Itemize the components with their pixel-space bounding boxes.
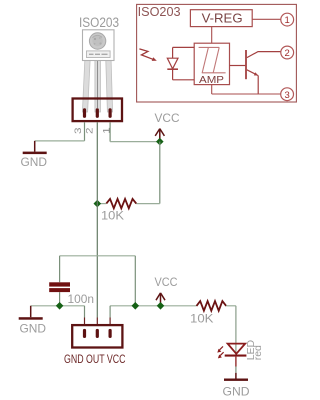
emitter vertical to rail xyxy=(257,76,259,94)
wire: GND rail bottom left xyxy=(31,305,85,307)
svg-text:2: 2 xyxy=(85,128,95,135)
svg-text:VCC: VCC xyxy=(155,275,178,289)
photodiode D1 xyxy=(167,47,194,79)
svg-text:GND: GND xyxy=(223,385,250,399)
SV1 pin 2 contact xyxy=(96,108,99,118)
wire: pin1 run right to VCC node xyxy=(110,141,160,143)
svg-text:ISO203: ISO203 xyxy=(138,5,181,19)
connector SV2 (bottom header GND OUT VCC) xyxy=(72,325,122,347)
capacitor C1 xyxy=(49,282,70,292)
ground GND (bottom left) xyxy=(19,306,47,336)
pin circle 3 xyxy=(281,88,294,101)
wire: SV1 pin3 down xyxy=(84,122,86,141)
wire: down to LED anode xyxy=(235,306,237,355)
svg-text:GND: GND xyxy=(21,155,48,169)
SV2 pin VCC contact xyxy=(109,329,112,338)
package body outline xyxy=(83,30,115,61)
junction: C1 / GND rail xyxy=(56,302,64,310)
block V-REG xyxy=(190,10,252,27)
wire: SV1 pin1 down xyxy=(109,122,111,141)
svg-text:100n: 100n xyxy=(68,292,95,306)
svg-text:10K: 10K xyxy=(101,209,124,223)
wire: OUT net vertical (SV1 pin2 down to SV2) xyxy=(96,122,98,317)
right leg xyxy=(106,61,113,113)
AMP glyph (stylised filter Z) xyxy=(199,47,226,72)
pin circle 2 xyxy=(281,46,294,59)
middle leg xyxy=(95,61,101,113)
collector xyxy=(247,52,281,58)
ground GND (top left) xyxy=(21,141,48,169)
wire: VCC node down to R1 xyxy=(159,142,161,204)
wire: LED cathode stub xyxy=(235,357,237,367)
SV1 pin 1 contact xyxy=(109,108,112,118)
ground GND (under LED) xyxy=(223,373,250,399)
svg-text:V-REG: V-REG xyxy=(202,11,243,26)
svg-text:3: 3 xyxy=(284,90,289,101)
SV2 pin OUT contact xyxy=(96,329,99,338)
supply VCC (bottom) xyxy=(155,275,178,305)
resistor R2 10K xyxy=(197,301,227,311)
wire: C1 bottom lead xyxy=(59,292,61,306)
wire: VCC branch drop right xyxy=(134,256,136,306)
wire: V-REG to pin 1 circle xyxy=(252,18,281,20)
left leg xyxy=(82,61,90,113)
wire: R2 to LED corner xyxy=(226,305,236,307)
supply VCC (top) xyxy=(155,111,180,141)
wire: VCC branch horizontal above capacitor xyxy=(60,255,136,257)
base bar xyxy=(245,50,247,79)
IR receiver package drawing (TO-92 front view) xyxy=(82,30,114,112)
light arrow 1 xyxy=(220,346,223,349)
wire: drop to capacitor C1 xyxy=(59,256,61,282)
junction: VCC drop / rail xyxy=(132,302,140,310)
svg-text:10K: 10K xyxy=(190,312,214,326)
svg-text:red: red xyxy=(252,345,264,360)
svg-text:VCC: VCC xyxy=(155,111,180,125)
wire: VCC rail down to SV2 pin xyxy=(109,306,111,318)
block AMP xyxy=(194,43,229,84)
transistor Q1 (inside module) xyxy=(230,50,281,94)
resistor R1 10K xyxy=(106,199,136,208)
ISO203 internal block diagram box xyxy=(137,4,297,102)
wire: AMP bottom to rail xyxy=(211,85,213,94)
wire: R1 left lead to OUT net xyxy=(97,203,106,205)
IR light arrow xyxy=(139,49,156,61)
junction: OUT / R1 xyxy=(94,200,102,208)
svg-text:GND OUT VCC: GND OUT VCC xyxy=(64,352,126,366)
svg-text:AMP: AMP xyxy=(199,74,224,86)
wire: GND rail down to SV2 pin xyxy=(84,306,86,318)
SV1 pin 3 contact xyxy=(83,108,86,118)
svg-text:2: 2 xyxy=(285,48,290,59)
package lens circle xyxy=(89,33,105,49)
wire: cathode to ground xyxy=(235,367,237,373)
SV2 pin GND contact xyxy=(83,329,86,338)
light arrow 2 xyxy=(220,352,223,355)
package label plate xyxy=(87,51,111,58)
wire: VCC rail bottom xyxy=(110,305,196,307)
middle leg center shadow line xyxy=(97,61,99,109)
junction: VCC arrow / rail xyxy=(157,302,165,310)
wire: pin3 run left to ground xyxy=(35,140,85,142)
wire: R1 right lead xyxy=(136,203,160,205)
svg-text:1: 1 xyxy=(285,15,290,26)
svg-text:ISO203: ISO203 xyxy=(79,15,119,30)
LED1 (red LED) xyxy=(217,344,246,359)
emitter xyxy=(247,70,258,76)
svg-text:3: 3 xyxy=(73,128,83,135)
wire: V-REG down to AMP xyxy=(211,27,213,44)
emitter arrowhead xyxy=(254,72,258,75)
SV2 pin stubs (red) xyxy=(84,318,86,326)
junction: VCC node top xyxy=(156,138,164,146)
connector SV1 (top header) xyxy=(73,99,122,122)
svg-text:GND: GND xyxy=(20,322,47,336)
base wire from AMP xyxy=(230,65,246,67)
wire: emitter rail to pin 3 circle xyxy=(212,93,281,95)
pin circle 1 xyxy=(281,13,294,26)
